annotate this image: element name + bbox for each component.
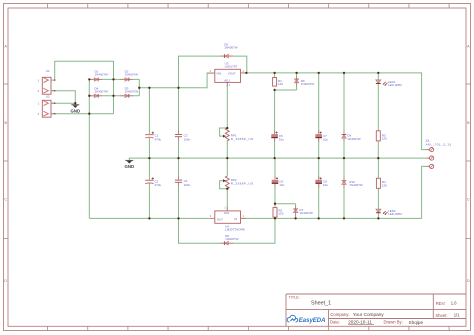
- svg-text:1N4007W: 1N4007W: [300, 211, 314, 215]
- svg-text:R_3386P_US: R_3386P_US: [231, 137, 254, 141]
- svg-text:1N4007W: 1N4007W: [301, 82, 315, 86]
- svg-text:1N4007W: 1N4007W: [349, 183, 363, 187]
- svg-text:VIN: VIN: [216, 72, 221, 76]
- svg-text:1N4007W: 1N4007W: [95, 72, 109, 76]
- svg-text:10u: 10u: [279, 137, 284, 141]
- svg-text:LM317AT: LM317AT: [225, 65, 238, 69]
- svg-text:TITLE:: TITLE:: [289, 296, 300, 300]
- svg-text:AKL_701_3_15: AKL_701_3_15: [426, 142, 452, 146]
- svg-text:IN: IN: [234, 217, 237, 221]
- svg-text:Sheet:: Sheet:: [435, 313, 447, 318]
- svg-text:1N4007W: 1N4007W: [225, 237, 239, 241]
- svg-text:VOUT: VOUT: [228, 72, 236, 76]
- svg-text:Company:: Company:: [330, 312, 349, 317]
- svg-text:LM337TNOPB: LM337TNOPB: [225, 228, 245, 232]
- svg-text:ADJ: ADJ: [224, 211, 230, 215]
- svg-text:GND: GND: [125, 164, 135, 169]
- svg-text:100n: 100n: [184, 137, 191, 141]
- svg-text:1N4007W: 1N4007W: [224, 45, 238, 49]
- svg-text:C: C: [4, 197, 7, 201]
- svg-text:120: 120: [382, 183, 387, 187]
- svg-text:1N4007W: 1N4007W: [95, 89, 109, 93]
- svg-text:100n: 100n: [184, 183, 191, 187]
- svg-text:120: 120: [278, 82, 283, 86]
- svg-text:120: 120: [278, 212, 283, 216]
- svg-text:2020-10-11: 2020-10-11: [348, 319, 372, 324]
- svg-text:120: 120: [382, 137, 387, 141]
- svg-text:1.0: 1.0: [451, 301, 457, 306]
- svg-text:REV:: REV:: [436, 301, 446, 306]
- svg-text:ADJ: ADJ: [224, 78, 230, 82]
- svg-text:1/1: 1/1: [454, 313, 460, 318]
- svg-text:R_3386P_US: R_3386P_US: [231, 182, 254, 186]
- svg-text:1N4007W: 1N4007W: [125, 89, 139, 93]
- svg-text:U1: U1: [46, 69, 50, 73]
- svg-text:C: C: [467, 197, 470, 201]
- svg-text:Drawn By:: Drawn By:: [384, 319, 403, 324]
- svg-text:Your Company: Your Company: [353, 312, 384, 317]
- svg-text:470u: 470u: [155, 137, 162, 141]
- svg-text:EasyEDA: EasyEDA: [299, 318, 326, 324]
- svg-text:1N4007W: 1N4007W: [347, 137, 361, 141]
- svg-text:1N4007W: 1N4007W: [125, 72, 139, 76]
- svg-text:U2: U2: [46, 94, 50, 98]
- svg-text:D: D: [467, 279, 470, 283]
- svg-text:Date:: Date:: [330, 319, 340, 324]
- svg-text:GND: GND: [71, 108, 81, 113]
- svg-text:Shqipe: Shqipe: [409, 320, 424, 325]
- svg-text:10u: 10u: [323, 183, 328, 187]
- svg-text:470u: 470u: [155, 183, 162, 187]
- svg-text:LED-3MM: LED-3MM: [388, 212, 402, 216]
- svg-text:Sheet_1: Sheet_1: [311, 300, 331, 306]
- svg-text:10u: 10u: [279, 183, 284, 187]
- svg-text:OUT: OUT: [217, 217, 223, 221]
- svg-text:10u: 10u: [323, 137, 328, 141]
- svg-text:D: D: [4, 279, 7, 283]
- svg-text:LED-3MM: LED-3MM: [388, 83, 402, 87]
